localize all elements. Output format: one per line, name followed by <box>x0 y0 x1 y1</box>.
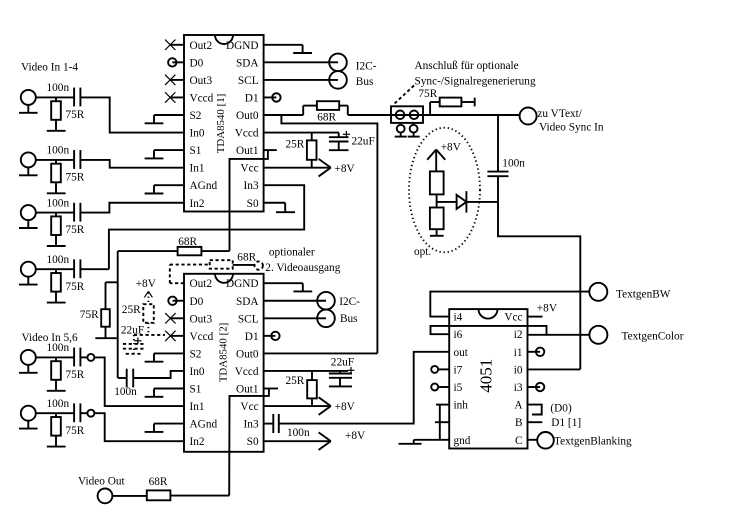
U1 pin D0 open circle <box>168 58 184 66</box>
resistor 75R (optional output terminator) with ground <box>80 282 118 338</box>
wire U2 Vccd <box>264 370 348 372</box>
svg-text:TextgenColor: TextgenColor <box>622 330 684 342</box>
wire U1 In3 to video input 4 <box>109 185 304 269</box>
resistor 25R (U1) <box>286 133 317 168</box>
sync connector pin grounds <box>395 125 420 137</box>
resistor lower (opt divider) <box>430 208 444 230</box>
diode (opt) <box>457 191 498 212</box>
svg-text:D0: D0 <box>190 57 204 69</box>
U3 left pin labels <box>454 312 471 447</box>
U2 left pin labels <box>190 278 218 448</box>
U1 pin S2 ground <box>154 114 184 116</box>
U1 Vcc +8V supply arrow <box>264 159 356 177</box>
wire 68R to sync connector and VText <box>348 114 520 116</box>
svg-text:TDA8540 [2]: TDA8540 [2] <box>218 323 230 383</box>
resistor upper (opt divider) <box>430 171 444 194</box>
svg-text:Video In 5,6: Video In 5,6 <box>22 332 78 344</box>
svg-text:2. Videoausgang: 2. Videoausgang <box>265 262 340 274</box>
svg-text:75R: 75R <box>80 309 99 321</box>
U3 pin i5 open circle <box>431 384 449 391</box>
svg-text:In3: In3 <box>244 180 259 192</box>
U1 pin S0 ground <box>264 203 295 212</box>
wire SDA U2 to I2C bus <box>264 300 326 302</box>
svg-text:75R: 75R <box>66 369 85 381</box>
svg-text:Bus: Bus <box>356 76 374 88</box>
svg-text:Vccd: Vccd <box>235 128 259 140</box>
wire U3 inh to gnd <box>436 405 449 440</box>
svg-text:SDA: SDA <box>236 296 259 308</box>
svg-text:75R: 75R <box>66 172 85 184</box>
U1 pin Out2 no-connect X <box>165 40 184 50</box>
svg-text:Sync-/Signalregenerierung: Sync-/Signalregenerierung <box>415 75 536 87</box>
svg-text:i3: i3 <box>514 382 523 394</box>
resistor 68R (sync output series) <box>303 101 348 123</box>
svg-text:S2: S2 <box>190 110 202 122</box>
svg-text:+8V: +8V <box>537 302 558 314</box>
label I2C-Bus (lower) <box>339 296 360 325</box>
ground (opt divider) <box>430 229 444 236</box>
svg-text:Out3: Out3 <box>190 75 213 87</box>
svg-text:AGnd: AGnd <box>190 419 218 431</box>
svg-text:In1: In1 <box>190 163 205 175</box>
svg-text:Vcc: Vcc <box>504 312 522 324</box>
svg-text:68R: 68R <box>178 236 197 248</box>
svg-text:100n: 100n <box>47 398 70 410</box>
svg-text:B: B <box>515 417 523 429</box>
optional dashed 25R pullup with +8V arrow <box>122 278 157 335</box>
svg-text:i7: i7 <box>454 364 463 376</box>
svg-text:75R: 75R <box>418 88 437 100</box>
svg-text:In1: In1 <box>190 401 205 413</box>
capacitor 100n (sync path) <box>487 158 525 177</box>
svg-text:In2: In2 <box>190 436 205 448</box>
video input connector 2 with 100n coupling cap and 75R terminator <box>19 145 85 194</box>
wire SDA U1 to I2C bus <box>264 61 338 63</box>
svg-text:TextgenBW: TextgenBW <box>616 288 671 300</box>
svg-text:DGND: DGND <box>226 278 259 290</box>
U2 pin S2 ground <box>154 352 184 354</box>
capacitor 100n (U2 In3) <box>264 414 310 439</box>
capacitor 100n (U2 In0 coupling) <box>114 369 137 399</box>
svg-text:25R: 25R <box>286 139 305 151</box>
svg-text:In2: In2 <box>190 198 205 210</box>
wire U2 Out1 stub <box>264 388 278 390</box>
svg-text:Video Sync In: Video Sync In <box>539 121 604 133</box>
svg-text:Vccd: Vccd <box>190 331 214 343</box>
svg-text:Vccd: Vccd <box>235 366 259 378</box>
optional dashed 68R second video output <box>170 252 263 284</box>
video input connector 5 with 100n coupling cap and 75R terminator <box>19 342 85 391</box>
wire U1 Out1 down through IC to 68R <box>230 150 268 251</box>
wire divider middle <box>437 194 457 207</box>
svg-text:25R: 25R <box>286 375 305 387</box>
U3 pin i1 open circle <box>528 348 545 356</box>
svg-text:Video In 1-4: Video In 1-4 <box>21 62 78 74</box>
svg-text:22uF: 22uF <box>121 324 144 336</box>
U3 pin i7 open circle <box>431 366 449 373</box>
svg-text:D1 [1]: D1 [1] <box>551 417 581 429</box>
U2 Vcc +8V supply arrow <box>264 397 356 415</box>
wire input4 up to In3 net <box>80 268 109 270</box>
U2 S0 +8V supply arrow <box>264 430 366 450</box>
wire input1 to U1 In0 <box>80 97 184 132</box>
svg-text:i1: i1 <box>514 347 523 359</box>
U3 pin A to (D0) <box>528 402 572 414</box>
U2 pin Out3 no-connect X <box>165 313 184 323</box>
video text output connector zu VText <box>520 108 604 134</box>
svg-text:Out2: Out2 <box>190 278 213 290</box>
svg-text:+8V: +8V <box>335 163 356 175</box>
svg-text:out: out <box>454 347 469 359</box>
wire U1 Out1 stub <box>264 149 277 151</box>
svg-text:gnd: gnd <box>454 435 471 447</box>
resistor 75R (sync) with open end <box>418 88 474 115</box>
svg-text:68R: 68R <box>317 112 336 124</box>
svg-text:D0: D0 <box>190 296 204 308</box>
sync connector block with two pins <box>391 106 423 123</box>
resistor 25R (U2) <box>286 371 317 406</box>
svg-text:i4: i4 <box>454 312 463 324</box>
svg-text:Bus: Bus <box>340 313 358 325</box>
svg-text:Out1: Out1 <box>236 145 259 157</box>
svg-text:75R: 75R <box>66 425 85 437</box>
capacitor 22uF (U1) with ground <box>329 131 375 150</box>
svg-text:Out1: Out1 <box>236 384 259 396</box>
U2 pin AGnd ground <box>154 423 184 425</box>
+8V arrow up (opt) <box>427 142 462 172</box>
U1 pin S1 ground <box>154 149 184 151</box>
U2 pin D1 open circle <box>264 332 280 340</box>
svg-text:inh: inh <box>454 400 469 412</box>
svg-text:(D0): (D0) <box>550 402 572 414</box>
wire input5 to U2 In1 <box>80 356 87 358</box>
svg-text:22uF: 22uF <box>352 136 375 148</box>
svg-text:S0: S0 <box>247 436 259 448</box>
wire U2 In3 to 4051 out <box>279 352 449 424</box>
U3 pin C to TextgenBlanking <box>528 432 632 449</box>
svg-text:I2C-: I2C- <box>339 296 360 308</box>
video input connector 3 with 100n coupling cap and 75R terminator <box>19 197 85 246</box>
wire Out0 branch down to U2 Out0 <box>281 115 377 353</box>
svg-text:+8V: +8V <box>441 142 462 154</box>
I2C bus connector circles (upper) <box>329 54 347 89</box>
wire SCL U1 to I2C bus <box>264 79 338 81</box>
svg-text:In3: In3 <box>244 419 259 431</box>
U3 Vcc +8V <box>528 302 558 316</box>
svg-text:Vcc: Vcc <box>240 163 258 175</box>
svg-text:+8V: +8V <box>335 401 356 413</box>
svg-text:optionaler: optionaler <box>269 247 315 259</box>
U2 pin Vccd no-connect X <box>165 331 184 341</box>
U1 pin D1 open circle <box>264 93 281 101</box>
svg-text:TDA8540 [1]: TDA8540 [1] <box>215 94 227 154</box>
U1 pin Out3 no-connect X <box>165 75 184 85</box>
video input connector 6 with 100n coupling cap and 75R terminator <box>19 398 85 447</box>
U3 unused left pin stub <box>435 421 449 423</box>
wire input3 to U1 In2 <box>80 203 184 213</box>
svg-text:A: A <box>514 400 523 412</box>
svg-text:Anschluß für optionale: Anschluß für optionale <box>415 60 519 72</box>
svg-text:75R: 75R <box>66 281 85 293</box>
svg-text:opt.: opt. <box>414 246 431 258</box>
svg-text:Out0: Out0 <box>236 348 259 360</box>
U1 pin DGND ground <box>264 45 312 53</box>
capacitor 22uF (U2) with ground <box>329 356 355 386</box>
U1 pin AGnd ground <box>154 184 184 186</box>
svg-text:+8V: +8V <box>345 430 366 442</box>
svg-text:D1: D1 <box>245 92 259 104</box>
U3 pin gnd ground <box>399 440 450 444</box>
svg-text:100n: 100n <box>47 342 70 354</box>
svg-text:D1: D1 <box>245 331 259 343</box>
svg-text:100n: 100n <box>47 82 70 94</box>
svg-text:75R: 75R <box>66 109 85 121</box>
svg-text:Vccd: Vccd <box>190 92 214 104</box>
svg-text:C: C <box>515 435 523 447</box>
op-amp U1 body TDA8540 [1] <box>184 35 264 212</box>
svg-text:4051: 4051 <box>477 359 496 393</box>
U2 right pin labels <box>226 278 259 448</box>
svg-text:75R: 75R <box>66 224 85 236</box>
svg-text:zu VText/: zu VText/ <box>537 108 582 120</box>
svg-text:DGND: DGND <box>226 40 259 52</box>
svg-text:i6: i6 <box>454 329 463 341</box>
svg-text:SCL: SCL <box>238 75 259 87</box>
wire U3 i4 to TextgenBW <box>430 292 589 317</box>
svg-text:100n: 100n <box>114 386 137 398</box>
junction circle input6 <box>87 410 94 417</box>
video input connector 1 with 100n coupling cap and 75R terminator <box>19 82 85 131</box>
label optionaler 2. Videoausgang <box>265 247 340 274</box>
svg-text:Out3: Out3 <box>190 313 213 325</box>
wire U1 Vccd <box>264 132 339 134</box>
wire VText node down <box>497 115 499 172</box>
svg-text:25R: 25R <box>122 304 141 316</box>
svg-text:S1: S1 <box>190 145 202 157</box>
U2 pin D0 open circle <box>168 297 184 305</box>
connector TextgenColor <box>589 326 683 344</box>
label I2C-Bus (upper) <box>356 61 377 89</box>
svg-text:S0: S0 <box>247 198 259 210</box>
wire 100n to U2 In0 <box>133 371 184 378</box>
svg-text:Vcc: Vcc <box>240 401 258 413</box>
U1 left pin labels <box>190 40 218 210</box>
U2 pin DGND ground <box>264 283 313 291</box>
U3 pin B to D1 [1] <box>528 417 582 429</box>
wire U3 i0 up to sync net <box>528 368 581 370</box>
svg-text:i0: i0 <box>514 364 523 376</box>
junction circle input5 <box>87 354 94 361</box>
svg-text:22uF: 22uF <box>331 356 354 368</box>
svg-text:Out2: Out2 <box>190 40 213 52</box>
svg-text:68R: 68R <box>149 476 168 488</box>
svg-text:SCL: SCL <box>238 313 259 325</box>
video output connector <box>98 489 113 504</box>
resistor 68R (U1 Out1 to U2 In0) <box>118 236 230 255</box>
wire 100n down and right to 4051 i0 <box>498 176 580 369</box>
wire 68R down to 100n <box>117 251 119 378</box>
dotted ellipse optional sync circuit <box>409 128 480 253</box>
svg-text:Video Out: Video Out <box>78 476 126 488</box>
svg-text:S1: S1 <box>190 384 202 396</box>
U1 right pin labels <box>226 40 259 210</box>
svg-text:68R: 68R <box>237 252 256 264</box>
svg-text:SDA: SDA <box>236 57 259 69</box>
wire U3 i6 jumper to i2 net <box>431 326 547 335</box>
U3 pin i3 open circle <box>528 383 545 391</box>
svg-text:100n: 100n <box>287 427 310 439</box>
wire U1 Out0 to 68R <box>264 114 304 116</box>
svg-text:i2: i2 <box>514 329 523 341</box>
wire U3 i2 to TextgenColor <box>528 334 590 336</box>
wire input6 to U2 In2 <box>80 412 87 414</box>
op-amp U2 body TDA8540 [2] <box>184 274 264 452</box>
svg-text:TextgenBlanking: TextgenBlanking <box>554 435 632 447</box>
svg-text:In0: In0 <box>190 366 205 378</box>
svg-text:In0: In0 <box>190 128 205 140</box>
video input connector 4 with 100n coupling cap and 75R terminator <box>19 254 85 303</box>
connector TextgenBW <box>589 283 670 301</box>
svg-text:100n: 100n <box>47 145 70 157</box>
svg-text:Out0: Out0 <box>236 110 259 122</box>
svg-text:100n: 100n <box>47 197 70 209</box>
svg-text:AGnd: AGnd <box>190 180 218 192</box>
wire video out to U2 Out1 <box>170 495 229 497</box>
svg-text:i5: i5 <box>454 382 463 394</box>
U3 right pin labels <box>504 312 523 447</box>
label Anschluss fuer optionale Sync-/Signalregenerierung <box>415 60 536 88</box>
wire U2 Out0 to bus <box>264 352 378 354</box>
svg-text:I2C-: I2C- <box>356 61 377 73</box>
leader dashed line to sync connector <box>394 86 415 105</box>
I2C bus connector circles (lower) <box>317 292 335 327</box>
wire SCL U2 to I2C bus <box>264 317 326 319</box>
svg-text:100n: 100n <box>502 158 525 170</box>
multiplexer U3 4051 body <box>449 309 527 448</box>
svg-text:S2: S2 <box>190 348 202 360</box>
svg-text:+8V: +8V <box>136 278 157 290</box>
wire U2 Out1 down through IC to video out <box>229 389 269 496</box>
U1 pin Vccd no-connect X <box>165 92 184 102</box>
U2 pin S1 ground <box>154 388 184 390</box>
svg-text:100n: 100n <box>47 254 70 266</box>
resistor 68R (video out) <box>112 476 170 500</box>
optional dashed 22uF with ground <box>121 324 165 353</box>
wire input2 to U1 In1 <box>80 160 184 168</box>
